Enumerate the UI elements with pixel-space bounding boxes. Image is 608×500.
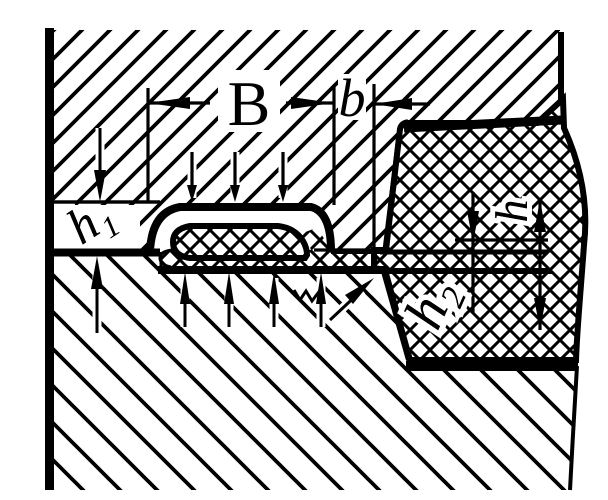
B dimension line with arrows: [148, 101, 210, 104]
B/b halo: [218, 70, 280, 132]
label h: [486, 200, 537, 223]
land face: [331, 250, 386, 254]
upper steel right edge: [558, 32, 564, 100]
b extension lines: [332, 86, 335, 205]
h1 dimension arrow up: [93, 262, 102, 333]
leader arrow to land: [330, 290, 362, 320]
h1 level line: [53, 200, 160, 203]
lower mold block (hatched): [53, 252, 578, 490]
article right edge: [563, 99, 585, 362]
label h1: [57, 185, 123, 255]
article top edge thick line: [404, 120, 562, 128]
rubber fill wedge at groove right corner: [300, 228, 330, 254]
parting line through article (upper): [380, 250, 548, 255]
h1 level line (redrawn over halo): [53, 200, 160, 203]
rubber flash strip: [160, 250, 376, 267]
lower face line: [53, 249, 160, 257]
bottom pressure arrows: [185, 278, 321, 327]
h2 dimension vertical line: [538, 198, 541, 330]
upper face and groove outline: [150, 207, 331, 251]
article bottom edge thick line: [406, 361, 578, 371]
h1 halo band: [54, 205, 140, 249]
label h2: [393, 269, 469, 338]
rubber article blob (crosshatched): [374, 99, 585, 360]
svg-text:b: b: [339, 68, 366, 128]
h dimension vertical line: [471, 192, 474, 313]
rubber bulge in groove: [173, 226, 307, 258]
lower cavity slant wall: [383, 268, 409, 360]
svg-text:B: B: [228, 68, 271, 139]
h reference horizontal line: [455, 238, 548, 241]
strip top edge line under land: [314, 248, 378, 251]
squiggle mark: [294, 290, 322, 303]
cavity left wall (upper): [385, 122, 408, 252]
h1 dimension arrow down: [96, 128, 105, 180]
B dimension extension line left: [146, 88, 149, 202]
lower steel right edge: [570, 366, 577, 490]
parting line through article (lower): [378, 268, 552, 274]
top pressure arrows: [192, 152, 283, 198]
svg-text:h: h: [486, 200, 537, 223]
strip left tip outline: [160, 250, 173, 267]
left wall bar: [45, 28, 54, 490]
upper mold block (hatched): [53, 30, 560, 252]
b dimension line with arrow: [374, 102, 430, 105]
upper face line (redrawn over halo): [53, 249, 152, 257]
